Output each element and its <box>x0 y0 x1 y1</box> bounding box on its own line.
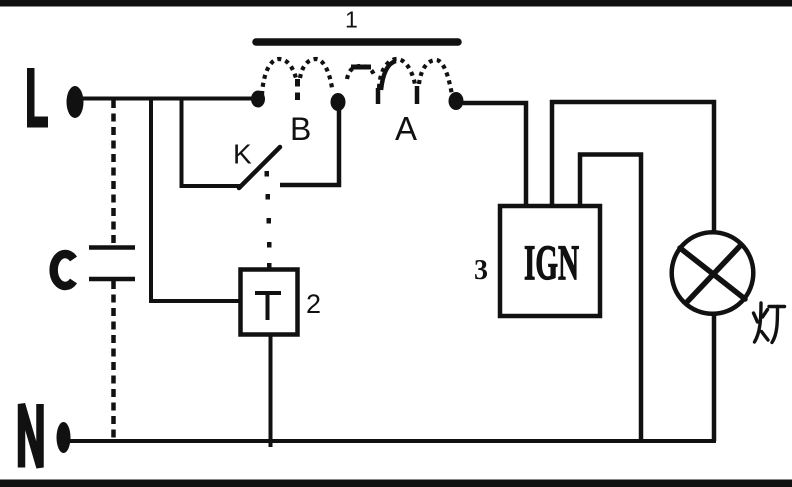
box IGN <box>500 206 600 316</box>
relay box T <box>241 270 298 335</box>
capacitor dashed lead bottom <box>111 281 116 440</box>
svg-text:2: 2 <box>306 289 321 319</box>
terminal L <box>67 86 84 118</box>
capacitor C top plate <box>89 245 135 250</box>
svg-text:A: A <box>395 110 417 147</box>
inductor core bar <box>256 38 458 46</box>
label N <box>22 404 41 468</box>
wire IGN pin2 to lamp <box>552 102 714 233</box>
svg-text:K: K <box>233 139 252 170</box>
switch K blade <box>239 147 280 188</box>
svg-text:3: 3 <box>474 255 488 286</box>
wire L to relay T <box>151 98 240 301</box>
relay T bottom lead <box>269 336 273 447</box>
wire N <box>68 439 716 443</box>
label lamp (deng) <box>754 303 785 343</box>
label L <box>27 68 48 128</box>
winding solid accents <box>351 61 417 104</box>
label T <box>255 291 281 320</box>
inductor winding (dashed humps) <box>262 59 452 95</box>
lamp bottom lead <box>712 315 717 441</box>
node A end <box>449 92 464 110</box>
label C <box>54 254 74 286</box>
wire A to IGN pin1 <box>463 103 526 207</box>
terminal N <box>57 422 71 453</box>
tap B dashed stub <box>295 79 300 106</box>
wire switch K to tap B <box>280 104 339 185</box>
lamp cross <box>680 246 745 302</box>
capacitor dashed lead top <box>111 100 116 243</box>
wire L to switch K <box>182 98 242 186</box>
top border frame <box>0 0 792 7</box>
wire L horizontal <box>82 97 258 101</box>
capacitor C bottom plate <box>89 277 135 282</box>
node left tap <box>251 91 265 108</box>
control dotted link K to T <box>265 171 272 269</box>
lamp circle <box>672 232 754 314</box>
node tap B <box>331 93 346 111</box>
svg-text:B: B <box>290 111 311 147</box>
svg-text:IGN: IGN <box>524 234 579 290</box>
svg-text:1: 1 <box>345 7 358 33</box>
bottom border frame <box>0 480 792 487</box>
wire IGN pin3 to N <box>580 155 641 442</box>
